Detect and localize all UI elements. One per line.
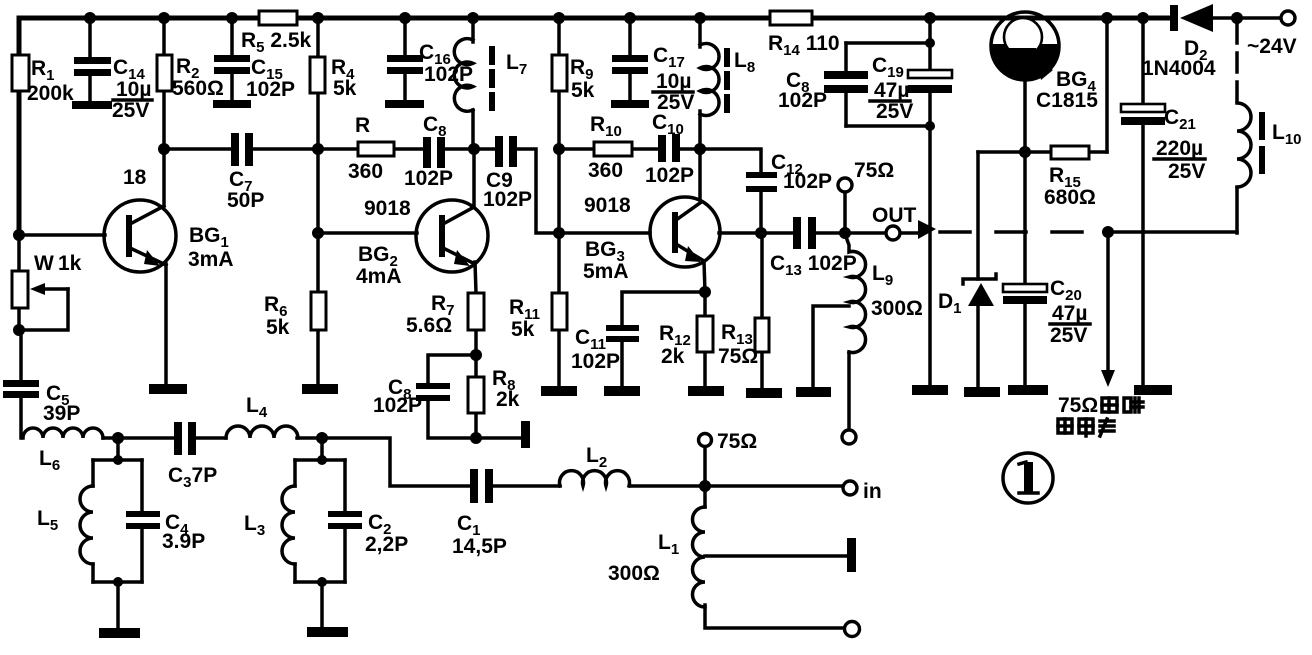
svg-text:300Ω: 300Ω	[871, 297, 923, 320]
wire BG3 output line y232	[719, 231, 920, 235]
ground D1	[964, 387, 1000, 397]
resistor R6	[264, 292, 326, 339]
wire 75 ohm bottom terminal stem	[703, 447, 707, 486]
capacitor C16	[385, 41, 473, 108]
terminal L1 bottom	[845, 622, 860, 637]
terminal below L9	[842, 430, 856, 444]
svg-text:1N4004: 1N4004	[1142, 57, 1216, 80]
inductor L1	[608, 507, 705, 607]
svg-text:25V: 25V	[1168, 160, 1205, 183]
svg-text:3mA: 3mA	[188, 248, 234, 271]
svg-text:102P: 102P	[778, 89, 827, 112]
svg-text:5.6Ω: 5.6Ω	[406, 314, 452, 337]
wire BG1 base	[19, 233, 105, 237]
wire coax dashed line	[940, 24, 1237, 233]
svg-text:680Ω: 680Ω	[1044, 186, 1096, 209]
svg-text:R14 110: R14 110	[768, 32, 840, 59]
inductor L3	[244, 486, 295, 564]
svg-text:50P: 50P	[227, 189, 264, 212]
inductor L4	[226, 394, 298, 438]
inductor L9	[845, 234, 923, 353]
wire C16 feeder	[403, 18, 407, 101]
inductor L5	[37, 486, 93, 564]
inductor L8	[700, 44, 755, 116]
ground sideways R8	[521, 421, 530, 448]
svg-text:25V: 25V	[876, 100, 913, 123]
figure number circle 1	[1003, 453, 1053, 503]
ground R6	[302, 384, 338, 394]
svg-text:200k: 200k	[27, 82, 74, 105]
svg-text:18: 18	[123, 166, 147, 189]
capacitor C9	[483, 136, 532, 211]
wire BG3 emitter node	[622, 262, 705, 387]
svg-text:C1815: C1815	[1036, 89, 1098, 112]
svg-text:102P: 102P	[373, 394, 422, 417]
svg-text:47µ: 47µ	[1052, 302, 1087, 325]
resistor R5	[241, 11, 312, 56]
node other dots	[13, 38, 1114, 587]
svg-text:W 1k: W 1k	[34, 252, 82, 275]
svg-text:5k: 5k	[511, 318, 535, 341]
resistor R10	[588, 113, 632, 182]
ground C20	[1008, 385, 1048, 395]
resistor R2	[157, 55, 224, 100]
terminal OUT	[872, 204, 936, 240]
CHINESE coax label	[1058, 394, 1143, 436]
wire C17 feeder	[628, 18, 632, 101]
svg-text:75Ω: 75Ω	[718, 345, 758, 368]
resistor R8	[468, 367, 520, 413]
svg-text:C13 102P: C13 102P	[770, 252, 857, 279]
capacitor C8 emitter	[373, 376, 450, 417]
wire bottom filter line y438	[103, 438, 843, 486]
svg-text:102P: 102P	[571, 350, 620, 373]
wire C20 column	[1023, 152, 1027, 387]
svg-text:C37P: C37P	[168, 464, 217, 491]
svg-text:360: 360	[348, 160, 383, 183]
svg-text:2k: 2k	[661, 345, 685, 368]
svg-text:47µ: 47µ	[874, 79, 909, 102]
wire BG2 emitter chain R7 R8	[428, 262, 523, 438]
wire R2 column	[162, 18, 166, 149]
resistor R11	[509, 293, 567, 341]
wire tank2 L3 C2	[295, 438, 345, 628]
svg-text:75Ω: 75Ω	[1058, 394, 1098, 417]
capacitor C11	[571, 325, 639, 373]
svg-text:2,2P: 2,2P	[365, 533, 408, 556]
wire R4/R6 column	[316, 18, 320, 386]
capacitor C15	[213, 55, 295, 108]
wire C19/C8 branch	[846, 18, 930, 386]
svg-text:39P: 39P	[43, 402, 80, 425]
svg-text:220µ: 220µ	[1156, 137, 1203, 160]
wire C15 feeder	[230, 18, 234, 101]
wire C14 to its bottom bar	[88, 75, 92, 102]
capacitor C7	[227, 133, 264, 212]
svg-text:2k: 2k	[496, 388, 520, 411]
node y149 dots	[158, 143, 706, 155]
svg-text:5mA: 5mA	[583, 260, 629, 283]
inductor L6	[23, 428, 103, 474]
wire y149 right section	[559, 149, 761, 233]
capacitor C2	[328, 511, 408, 556]
svg-text:14,5P: 14,5P	[452, 535, 507, 558]
svg-text:10µ: 10µ	[656, 70, 691, 93]
svg-text:5k: 5k	[571, 79, 595, 102]
potentiometer W 1k	[12, 252, 82, 330]
svg-text:75Ω: 75Ω	[854, 159, 894, 182]
ground tank2	[307, 627, 348, 637]
wire L8 / BG3 collector column	[698, 18, 702, 199]
terminal 75 ohm bottom	[699, 430, 758, 453]
wire tank1 L5 C4	[93, 438, 142, 629]
wire D1 column	[976, 152, 980, 388]
wire BG2 base	[318, 231, 417, 235]
inductor L10	[1237, 103, 1302, 187]
ground R13	[746, 388, 782, 398]
svg-text:9018: 9018	[364, 197, 411, 220]
node rail dots	[84, 12, 1243, 24]
transistor BG4	[991, 12, 1098, 112]
terminal 75 ohm top	[838, 159, 894, 192]
svg-text:R: R	[355, 114, 370, 137]
svg-text:10µ: 10µ	[116, 78, 151, 101]
svg-text:5k: 5k	[333, 77, 357, 100]
wire top rail	[19, 18, 1281, 235]
svg-text:5k: 5k	[266, 316, 290, 339]
svg-text:300Ω: 300Ω	[608, 562, 660, 585]
svg-text:3.9P: 3.9P	[162, 530, 205, 553]
svg-text:102P: 102P	[483, 188, 532, 211]
svg-text:360: 360	[588, 159, 623, 182]
ground L9 tap	[796, 387, 831, 397]
diode D2	[1142, 4, 1216, 80]
svg-text:75Ω: 75Ω	[717, 430, 757, 453]
wire 75 ohm top terminal stem	[843, 192, 847, 233]
transistor BG3	[583, 194, 720, 283]
resistor R12	[659, 316, 713, 368]
ground R12	[688, 386, 724, 396]
capacitor C13	[770, 217, 857, 279]
svg-text:~24V: ~24V	[1247, 35, 1297, 58]
capacitor C14	[72, 56, 152, 122]
capacitor C10	[645, 111, 694, 187]
wire L1 taps	[705, 486, 848, 628]
svg-text:25V: 25V	[112, 99, 149, 122]
wire base line y149 left section	[164, 149, 650, 233]
svg-text:102P: 102P	[783, 170, 832, 193]
resistor R13	[718, 318, 769, 368]
wire L7 / BG2 collector column	[473, 18, 474, 206]
svg-text:OUT: OUT	[872, 204, 917, 227]
ground C19 line	[912, 385, 948, 395]
svg-text:9018: 9018	[584, 194, 631, 217]
resistor R 360	[348, 114, 394, 183]
wire left column W-pot to C5	[19, 235, 21, 438]
capacitor C8 decoupling	[778, 69, 868, 112]
svg-text:102P: 102P	[404, 167, 453, 190]
wire R9 R11 column	[557, 18, 561, 387]
diode D1 zener	[938, 274, 996, 317]
ground tank1	[99, 628, 140, 638]
capacitor C5	[3, 380, 80, 425]
wire BG4 emitter and R15 node	[978, 18, 1107, 152]
resistor R4	[310, 56, 357, 100]
svg-text:4mA: 4mA	[356, 265, 402, 288]
transistor BG1	[104, 149, 234, 385]
terminal bar L1 middle	[847, 538, 856, 572]
capacitor C17	[611, 44, 694, 114]
capacitor C4	[126, 511, 205, 553]
ground R11	[541, 386, 577, 396]
ground C21	[1134, 385, 1172, 395]
capacitor C1	[452, 469, 507, 558]
ground C11	[604, 386, 640, 396]
wire C21 column	[1141, 18, 1145, 387]
capacitor C12	[746, 151, 832, 193]
resistor R15	[1044, 146, 1096, 209]
terminal in	[843, 480, 882, 503]
wire L9 bottom and tap	[813, 306, 849, 430]
capacitor C3	[168, 422, 217, 491]
resistor R7	[406, 292, 484, 337]
svg-text:R5 2.5k: R5 2.5k	[241, 29, 312, 56]
svg-text:102P: 102P	[246, 78, 295, 101]
svg-text:in: in	[863, 480, 882, 503]
transistor BG2	[356, 197, 488, 288]
resistor R14	[768, 11, 840, 59]
svg-text:25V: 25V	[1050, 324, 1087, 347]
svg-text:102P: 102P	[645, 164, 694, 187]
capacitor C21	[1121, 104, 1205, 183]
wire R13 column	[760, 233, 764, 389]
capacitor C19	[870, 54, 952, 123]
wire coax down arrow	[1101, 232, 1115, 387]
svg-text:560Ω: 560Ω	[172, 77, 224, 100]
wire C14 feeder	[88, 18, 92, 58]
resistor R9	[552, 55, 595, 102]
ground BG1 emitter	[149, 384, 187, 394]
inductor L7	[454, 39, 527, 112]
capacitor C8 coupling	[404, 113, 453, 190]
terminal 24V	[1247, 11, 1297, 58]
capacitor C20	[1003, 277, 1090, 347]
resistor R1	[12, 55, 74, 105]
inductor L2	[560, 444, 630, 486]
